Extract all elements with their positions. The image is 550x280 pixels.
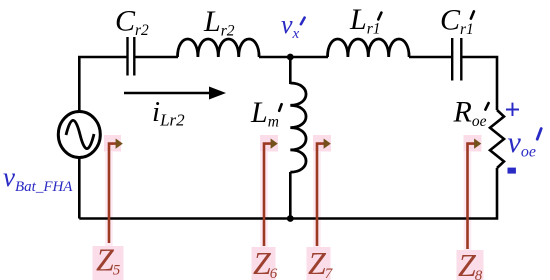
inductor L_m vertical [290, 83, 306, 172]
L_m branch wire top [289, 57, 292, 84]
inductor L_r2 [178, 39, 260, 57]
impedance arrow Z6 [264, 139, 278, 247]
label v_oe' [508, 126, 542, 161]
node v_x dot [287, 54, 294, 61]
label R_oe' [453, 95, 489, 130]
label L_m' [250, 96, 282, 131]
highlight Z8 [457, 135, 484, 280]
wire L_r1 to C_r1 [409, 56, 451, 59]
label v_x' [281, 10, 305, 42]
svg-text:+: + [505, 95, 521, 126]
wire L_r2 to node [259, 56, 328, 59]
AC source circle [58, 112, 100, 158]
highlight Z5 [93, 135, 124, 280]
wire bottom-left vertical [78, 158, 81, 219]
label C_r1' [440, 3, 474, 38]
capacitor C_r2 [128, 37, 135, 76]
capacitor C_r1 [452, 38, 461, 81]
label minus [508, 168, 516, 174]
highlight Z7 [307, 135, 332, 280]
sine wave [66, 120, 94, 148]
inductor L_r1 [328, 39, 410, 57]
current arrow i_Lr2 [124, 87, 226, 100]
node bottom dot [287, 215, 294, 222]
resistor R_oe zigzag [490, 110, 504, 168]
L_m branch wire bottom [289, 172, 292, 219]
impedance arrow Z7 [317, 139, 331, 247]
wire C_r2 to L_r2 [136, 56, 179, 59]
highlight Z6 [252, 135, 279, 280]
wire C_r1 to right corner and down to resistor [463, 57, 498, 110]
impedance arrow Z8 [468, 139, 482, 250]
wire resistor to bottom-right corner [79, 168, 497, 219]
impedance arrow Z5 [109, 139, 123, 244]
wire top-left [79, 57, 126, 113]
label L_r1' [349, 3, 381, 38]
